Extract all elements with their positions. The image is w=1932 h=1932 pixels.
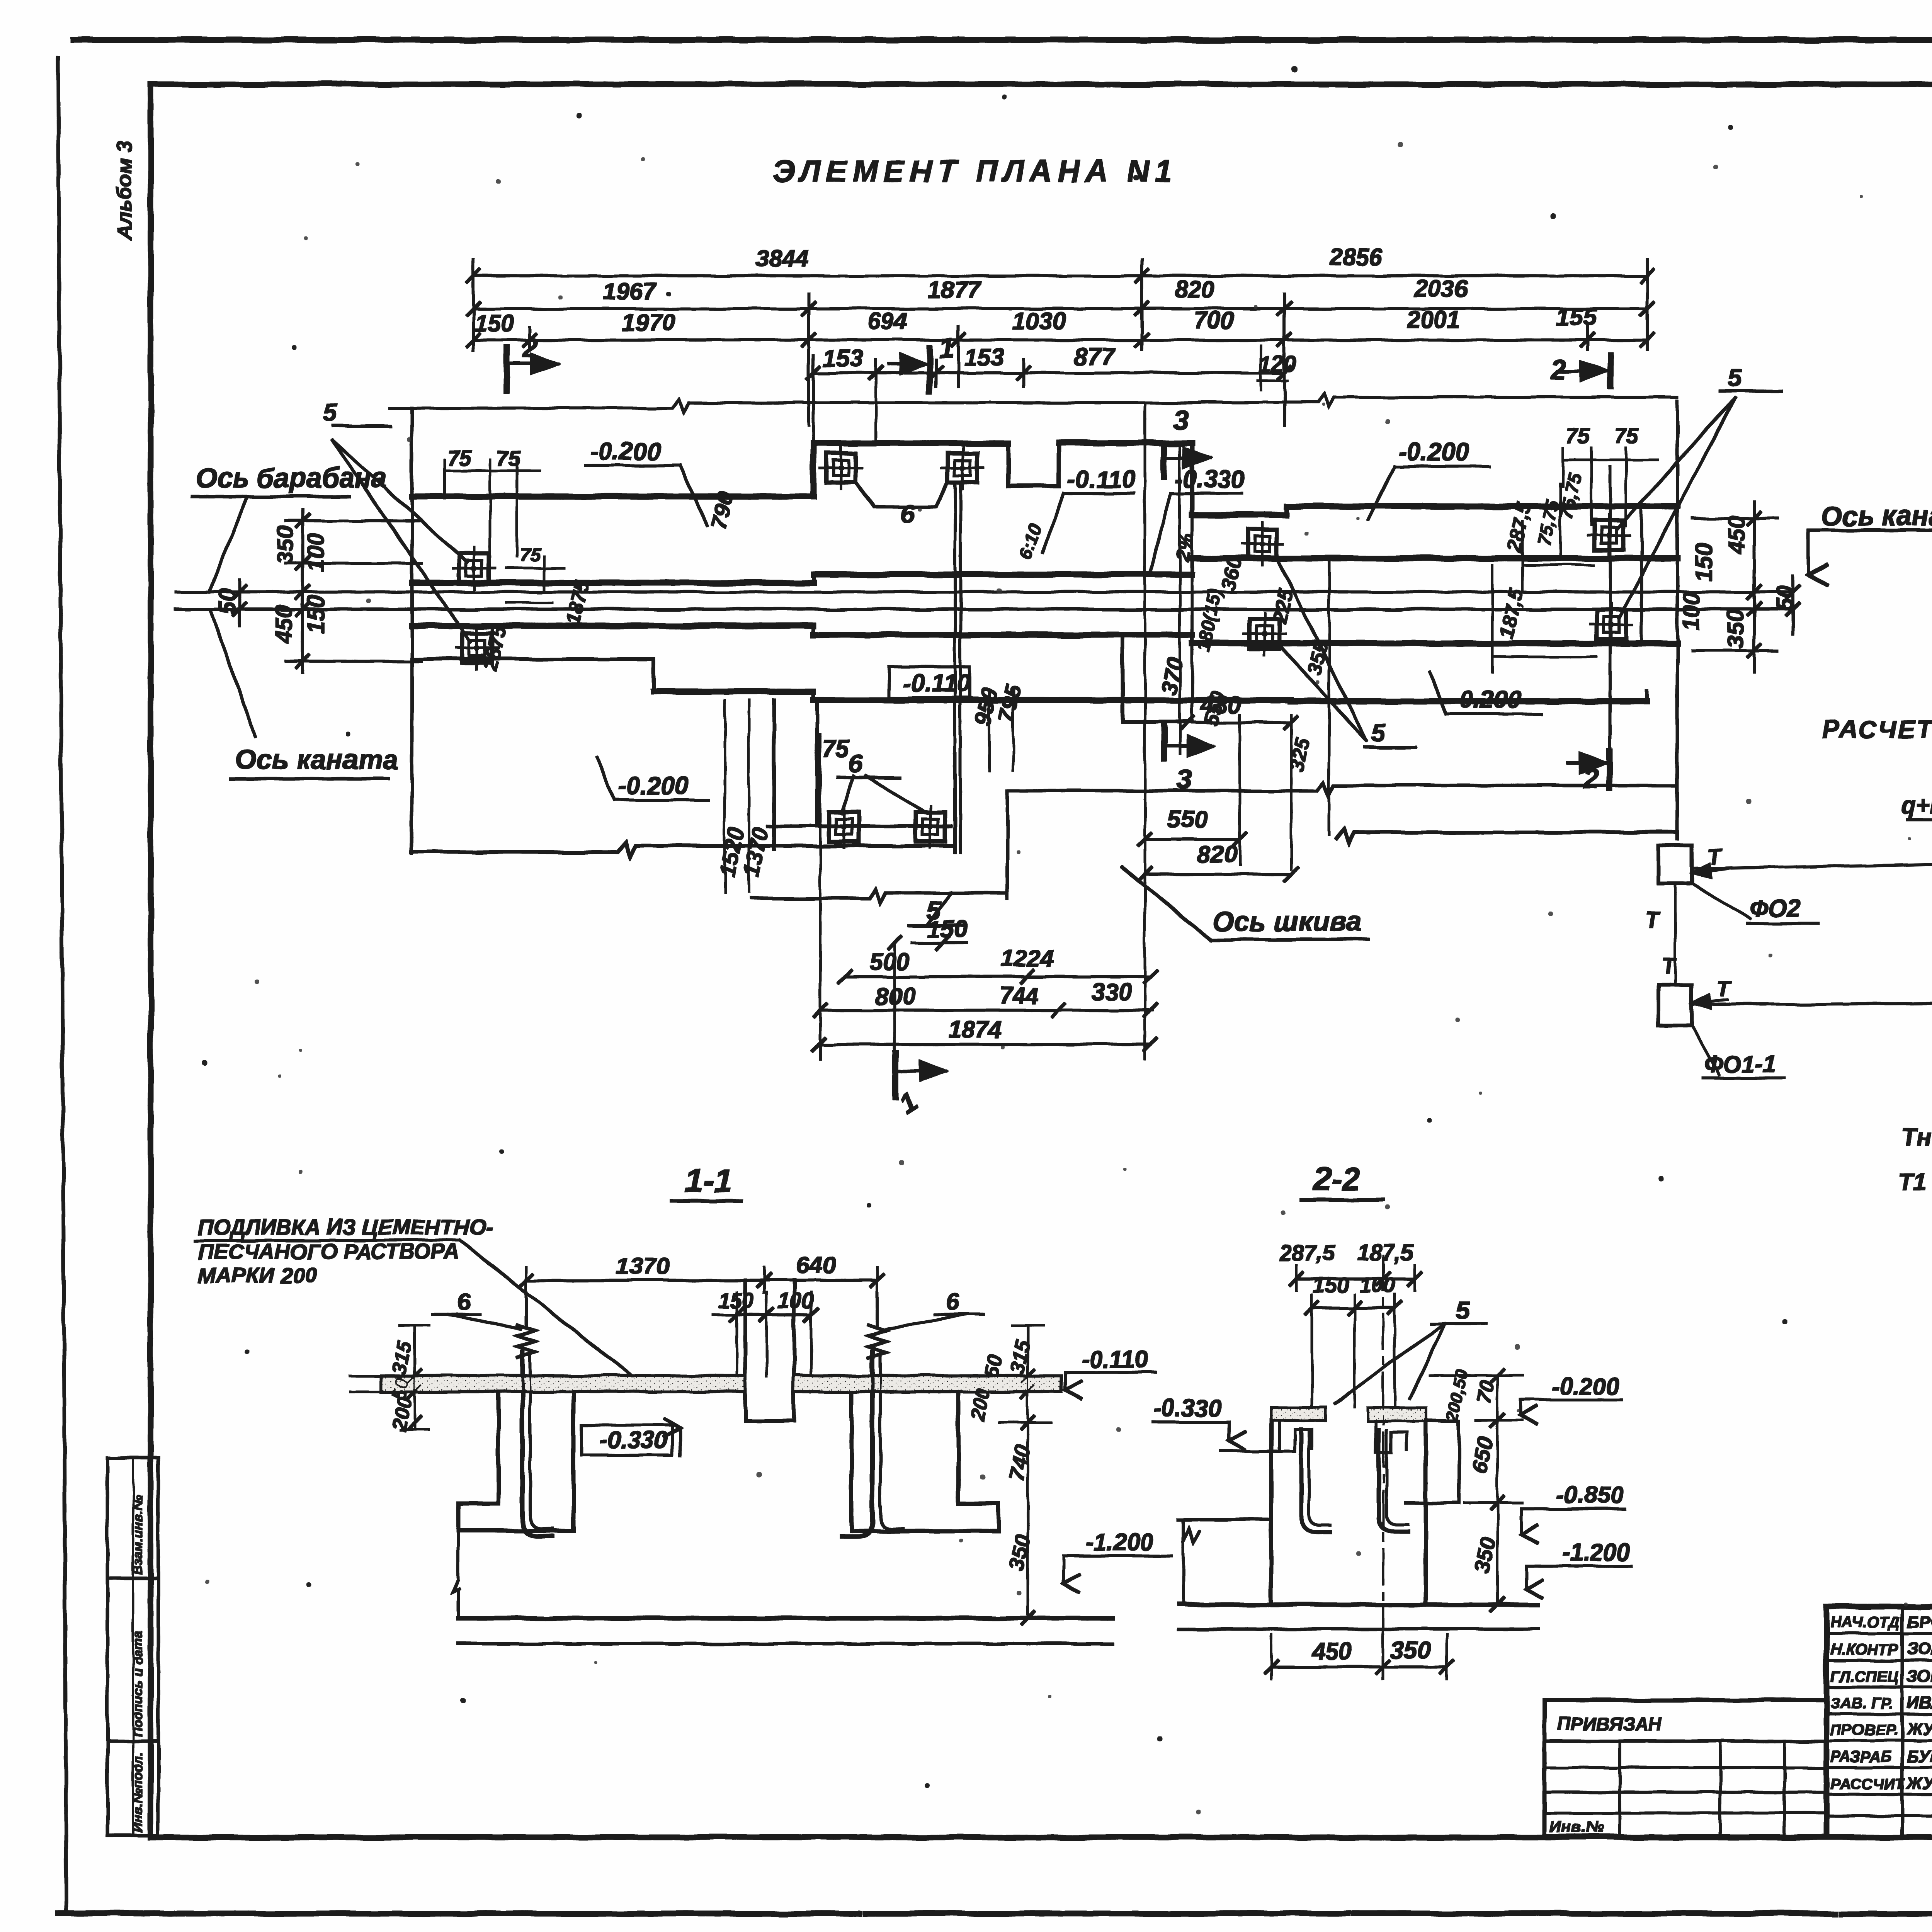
svg-text:Инв.№подл.: Инв.№подл. xyxy=(131,1752,145,1832)
svg-text:155: 155 xyxy=(1556,304,1597,331)
svg-text:2875: 2875 xyxy=(479,624,510,673)
svg-text:350: 350 xyxy=(1004,1532,1035,1573)
svg-text:-0.200: -0.200 xyxy=(1451,685,1521,713)
svg-text:50: 50 xyxy=(214,588,240,614)
svg-text:1370: 1370 xyxy=(616,1253,670,1280)
svg-text:744: 744 xyxy=(999,983,1039,1009)
svg-text:75: 75 xyxy=(1614,424,1639,448)
svg-text:ЗАВ. ГР.: ЗАВ. ГР. xyxy=(1830,1695,1893,1712)
svg-text:150: 150 xyxy=(927,916,967,942)
svg-text:Ось каната: Ось каната xyxy=(1821,501,1932,532)
svg-text:-0.330: -0.330 xyxy=(1175,465,1245,493)
svg-text:5: 5 xyxy=(1728,363,1743,392)
svg-text:-0.200: -0.200 xyxy=(590,437,660,465)
svg-text:Подпись и дата: Подпись и дата xyxy=(131,1631,145,1737)
svg-text:153: 153 xyxy=(823,345,863,372)
svg-text:650: 650 xyxy=(1466,1435,1498,1475)
svg-text:-0.110: -0.110 xyxy=(1067,465,1136,493)
svg-text:6: 6 xyxy=(849,749,863,777)
svg-text:-0.330: -0.330 xyxy=(600,1427,668,1454)
svg-text:75: 75 xyxy=(447,446,472,470)
svg-text:187,5: 187,5 xyxy=(1495,586,1528,640)
svg-text:2001: 2001 xyxy=(1406,306,1460,333)
svg-text:100: 100 xyxy=(303,533,329,572)
svg-text:50: 50 xyxy=(1772,585,1798,611)
svg-text:1: 1 xyxy=(894,1085,923,1120)
svg-text:Н.КОНТР: Н.КОНТР xyxy=(1830,1641,1898,1658)
svg-text:Тнорм.= ± 120кН (12,0 тс) гор: Тнорм.= ± 120кН (12,0 тс) горизонтальная xyxy=(1901,1123,1932,1151)
svg-text:2: 2 xyxy=(1583,764,1599,794)
svg-text:НАЧ.ОТД: НАЧ.ОТД xyxy=(1830,1614,1900,1631)
svg-text:ФО1-1: ФО1-1 xyxy=(1704,1051,1776,1078)
svg-text:330: 330 xyxy=(1092,979,1131,1005)
svg-text:6:10: 6:10 xyxy=(1015,520,1046,562)
svg-text:820: 820 xyxy=(1175,276,1214,303)
svg-text:Ось шкива: Ось шкива xyxy=(1213,906,1362,937)
svg-text:РАССЧИТ: РАССЧИТ xyxy=(1830,1776,1905,1793)
svg-text:694: 694 xyxy=(867,308,907,335)
svg-text:150: 150 xyxy=(1691,543,1717,582)
svg-text:2: 2 xyxy=(522,333,538,364)
svg-text:120: 120 xyxy=(1259,352,1296,377)
svg-text:700: 700 xyxy=(1194,307,1234,334)
svg-text:315: 315 xyxy=(1006,1338,1035,1376)
svg-text:287,5: 287,5 xyxy=(1279,1240,1335,1265)
svg-text:350: 350 xyxy=(272,526,298,564)
svg-text:200: 200 xyxy=(388,1395,417,1433)
svg-text:ПРИВЯЗАН: ПРИВЯЗАН xyxy=(1557,1714,1662,1735)
svg-text:1967: 1967 xyxy=(603,279,657,305)
svg-text:ПЕСЧАНОГО РАСТВОРА: ПЕСЧАНОГО РАСТВОРА xyxy=(198,1239,459,1264)
svg-text:325: 325 xyxy=(1286,736,1315,774)
svg-text:370: 370 xyxy=(1156,655,1188,697)
svg-text:100: 100 xyxy=(777,1288,813,1313)
svg-text:500: 500 xyxy=(869,949,909,975)
svg-text:150: 150 xyxy=(718,1288,754,1313)
svg-text:РАЗРАБ: РАЗРАБ xyxy=(1830,1748,1892,1765)
svg-text:1-1: 1-1 xyxy=(685,1163,732,1199)
svg-text:820: 820 xyxy=(1197,841,1237,868)
svg-text:640: 640 xyxy=(796,1252,836,1279)
svg-text:6: 6 xyxy=(946,1289,959,1315)
svg-text:1030: 1030 xyxy=(1012,308,1066,335)
svg-text:ЗОРИН: ЗОРИН xyxy=(1907,1639,1932,1658)
svg-text:795: 795 xyxy=(993,682,1026,724)
svg-text:РАСЧЕТНАЯ СХЕМА ФУНДАМЕНТОВ: РАСЧЕТНАЯ СХЕМА ФУНДАМЕНТОВ ФО1, ФО1-1, … xyxy=(1822,715,1932,743)
svg-text:-0.200: -0.200 xyxy=(618,772,688,799)
svg-text:ЭЛЕМЕНТ ПЛАНА N1: ЭЛЕМЕНТ ПЛАНА N1 xyxy=(773,154,1177,188)
svg-text:450: 450 xyxy=(1724,516,1750,555)
svg-text:70: 70 xyxy=(1472,1379,1499,1406)
svg-text:2-2: 2-2 xyxy=(1312,1161,1361,1197)
svg-text:6: 6 xyxy=(457,1289,470,1315)
svg-text:50: 50 xyxy=(980,1353,1007,1380)
svg-text:ПОДЛИВКА ИЗ ЦЕМЕНТНО-: ПОДЛИВКА ИЗ ЦЕМЕНТНО- xyxy=(198,1215,493,1239)
svg-text:3: 3 xyxy=(1173,405,1189,436)
svg-text:-0.200: -0.200 xyxy=(1551,1373,1619,1400)
svg-text:150: 150 xyxy=(1313,1273,1349,1297)
svg-text:150: 150 xyxy=(474,310,514,337)
svg-text:Ось барабана: Ось барабана xyxy=(195,463,387,494)
svg-text:150: 150 xyxy=(303,595,329,634)
svg-text:5: 5 xyxy=(1371,718,1386,747)
svg-text:315: 315 xyxy=(388,1339,417,1377)
svg-text:350: 350 xyxy=(1723,610,1748,648)
svg-text:2036: 2036 xyxy=(1414,276,1468,302)
svg-text:550: 550 xyxy=(1168,806,1207,833)
svg-text:Т1 норм.= ± 50 кН (5,0тс) гор: Т1 норм.= ± 50 кН (5,0тс) горизонтальная xyxy=(1898,1168,1932,1196)
svg-text:ИВАНОВА: ИВАНОВА xyxy=(1907,1693,1932,1712)
svg-text:75: 75 xyxy=(520,545,541,565)
svg-text:БУКРЕЕВ: БУКРЕЕВ xyxy=(1907,1747,1932,1766)
svg-text:75,75: 75,75 xyxy=(1556,470,1586,520)
svg-text:Т: Т xyxy=(1707,845,1723,870)
svg-text:Т: Т xyxy=(1662,954,1677,979)
svg-text:ПРОВЕР.: ПРОВЕР. xyxy=(1830,1721,1898,1738)
svg-text:350: 350 xyxy=(1469,1535,1500,1575)
svg-text:5: 5 xyxy=(323,398,338,427)
svg-text:6: 6 xyxy=(900,499,915,528)
svg-text:1874: 1874 xyxy=(949,1016,1002,1043)
svg-text:-0.850: -0.850 xyxy=(1556,1482,1624,1509)
svg-text:ЗОРИН: ЗОРИН xyxy=(1907,1667,1932,1685)
svg-text:-1.200: -1.200 xyxy=(1562,1539,1630,1566)
svg-text:-0.110: -0.110 xyxy=(902,669,971,697)
svg-text:1875: 1875 xyxy=(562,578,594,627)
svg-text:Инв.№: Инв.№ xyxy=(1549,1818,1604,1836)
svg-text:ФО2: ФО2 xyxy=(1750,895,1800,922)
svg-text:350: 350 xyxy=(1390,1637,1430,1664)
svg-text:3844: 3844 xyxy=(755,245,809,272)
svg-text:2: 2 xyxy=(1549,354,1566,385)
svg-text:-0.110: -0.110 xyxy=(1082,1347,1148,1373)
svg-text:153: 153 xyxy=(964,344,1004,371)
svg-text:450: 450 xyxy=(271,605,297,644)
svg-text:Альбом 3: Альбом 3 xyxy=(113,141,136,241)
svg-text:75: 75 xyxy=(822,735,849,762)
svg-text:75: 75 xyxy=(497,446,521,470)
svg-text:q+P: q+P xyxy=(1901,792,1932,819)
svg-text:Взам.инв.№: Взам.инв.№ xyxy=(131,1495,145,1575)
svg-text:877: 877 xyxy=(1074,344,1115,370)
svg-text:100: 100 xyxy=(1679,592,1704,631)
svg-text:800: 800 xyxy=(875,983,915,1010)
svg-text:480: 480 xyxy=(1200,692,1241,718)
svg-text:ЖУРАВЛЕВА: ЖУРАВЛЕВА xyxy=(1906,1720,1932,1739)
svg-text:ЖУРАВЛЕВА: ЖУРАВЛЕВА xyxy=(1906,1774,1932,1793)
svg-text:450: 450 xyxy=(1311,1638,1352,1665)
svg-text:5: 5 xyxy=(1456,1297,1470,1324)
svg-text:-1.200: -1.200 xyxy=(1086,1529,1154,1556)
svg-text:Т: Т xyxy=(1645,907,1661,932)
svg-text:БРОДСКИЙ: БРОДСКИЙ xyxy=(1907,1612,1932,1631)
svg-text:-0.200: -0.200 xyxy=(1399,438,1469,466)
svg-text:1224: 1224 xyxy=(1001,946,1054,972)
svg-text:187,5: 187,5 xyxy=(1357,1240,1413,1265)
svg-text:1: 1 xyxy=(939,333,954,364)
svg-text:Ось каната: Ось каната xyxy=(235,744,399,775)
svg-text:100: 100 xyxy=(1359,1273,1395,1297)
svg-text:-0.330: -0.330 xyxy=(1153,1395,1221,1422)
svg-text:740: 740 xyxy=(1004,1442,1035,1483)
svg-text:2856: 2856 xyxy=(1329,244,1383,270)
svg-text:Т: Т xyxy=(1716,977,1732,1002)
svg-text:1970: 1970 xyxy=(622,310,675,336)
svg-text:МАРКИ 200: МАРКИ 200 xyxy=(198,1263,317,1287)
svg-text:75: 75 xyxy=(1566,424,1590,448)
svg-text:1877: 1877 xyxy=(927,277,981,304)
svg-text:ГЛ.СПЕЦ: ГЛ.СПЕЦ xyxy=(1830,1668,1898,1685)
